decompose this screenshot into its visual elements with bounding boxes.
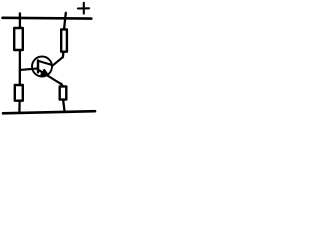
wire top supply rail (3, 16, 92, 19)
wire left branch top (tick through rail down to R1) (19, 13, 21, 27)
wire collector diagonal (39, 57, 63, 65)
wire bottom ground rail (3, 111, 95, 113)
wire R4 bottom to ground rail (63, 101, 64, 112)
resistor R2 (15, 85, 23, 101)
transistor Q1 (32, 57, 60, 84)
node + (positive supply label) (78, 3, 89, 14)
resistor R3 (61, 29, 67, 51)
wire collector stub (62, 53, 65, 57)
wire R1 bottom to R2 top (base divider wire) (19, 51, 21, 84)
wire emitter stub (60, 83, 62, 86)
wire base lead (20, 68, 38, 70)
wire right branch top (tick through rail down to R3) (64, 13, 66, 29)
resistor R1 (14, 28, 23, 50)
wire R2 bottom to ground rail (18, 102, 21, 113)
resistor R4 (60, 86, 67, 99)
